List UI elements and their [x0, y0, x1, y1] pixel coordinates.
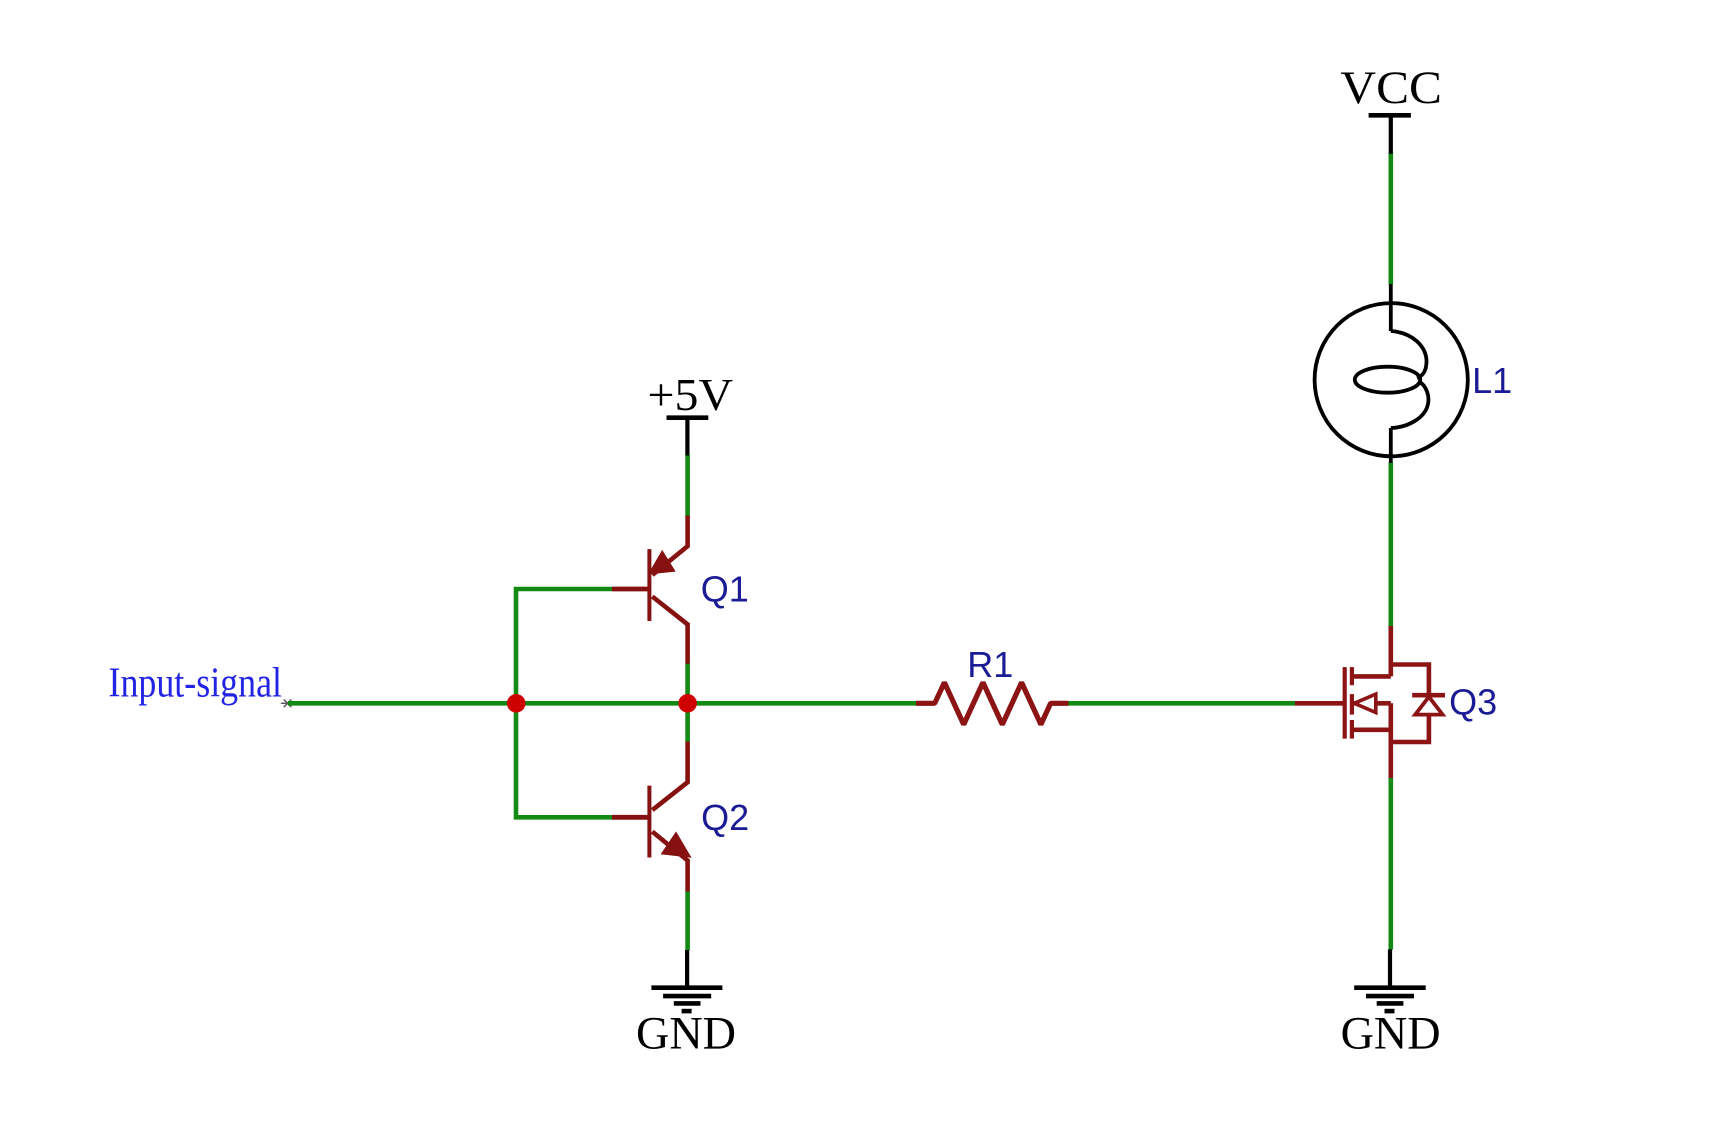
- wire Q1 emitter (top, from +5V): [685, 455, 690, 516]
- power flag VCC: [1340, 63, 1442, 154]
- power flag +5V: [648, 369, 734, 455]
- Q1 emitter lead: [652, 516, 687, 576]
- Q3 gate lead: [1295, 701, 1345, 706]
- Q3 body diode branch bottom: [1391, 715, 1429, 742]
- GND left bar 3: [674, 1001, 701, 1006]
- Q3 drain connection: [1352, 626, 1391, 676]
- Q2 base lead: [612, 815, 649, 820]
- svg-text:Q3: Q3: [1449, 682, 1497, 723]
- transistor Q2 (NPN): [612, 742, 749, 892]
- Q3 channel segment middle: [1350, 694, 1354, 715]
- wire base-bus down to Q2 base: [516, 701, 613, 817]
- svg-text:Q1: Q1: [701, 568, 749, 609]
- Q2 base bar: [647, 786, 651, 858]
- svg-text:Q2: Q2: [701, 797, 749, 838]
- GND left lead: [685, 950, 689, 988]
- svg-text:+5V: +5V: [648, 369, 734, 420]
- wire Q1 collector to output node: [685, 664, 690, 706]
- Q2 emitter arrow: [663, 834, 690, 857]
- wire Q2 emitter to GND: [685, 891, 690, 950]
- GND right bar 4: [1385, 1009, 1395, 1014]
- GND left bar 4: [682, 1009, 692, 1014]
- Q3 body diode triangle: [1415, 697, 1442, 715]
- resistor R1: [916, 644, 1069, 725]
- Q3 channel segment bottom: [1350, 720, 1354, 739]
- Q1 emitter arrow: [650, 552, 673, 573]
- L1 bottom lead: [1389, 428, 1393, 463]
- L1 bulb circle: [1315, 303, 1468, 456]
- svg-text:GND: GND: [636, 1008, 736, 1059]
- Q3 channel segment top: [1350, 667, 1354, 685]
- svg-text:R1: R1: [967, 644, 1013, 685]
- Q1 base lead: [612, 587, 649, 592]
- wire stub marker (unconnected origin): [282, 700, 294, 707]
- wire Q3 source to GND: [1389, 778, 1394, 950]
- L1 filament loop: [1355, 367, 1420, 393]
- svg-text:L1: L1: [1472, 360, 1512, 401]
- svg-text:GND: GND: [1341, 1009, 1441, 1060]
- L1 filament lower arc: [1391, 382, 1429, 429]
- Q3 source arrow (open): [1354, 694, 1376, 712]
- wire VCC to lamp: [1389, 153, 1394, 284]
- GND right bar 2: [1366, 994, 1414, 999]
- transistor Q3 (NMOS with body diode): [1295, 626, 1497, 778]
- Q3 body diode cathode bar: [1412, 693, 1445, 698]
- ground GND right: [1341, 949, 1441, 1059]
- junction node output: [678, 694, 697, 713]
- wire output node to R1: [688, 701, 916, 706]
- Q2 collector lead: [652, 742, 687, 811]
- GND right bar 1: [1354, 985, 1426, 990]
- L1 filament upper arc: [1391, 331, 1427, 378]
- Q3 body diode branch top: [1391, 665, 1429, 696]
- lamp L1: [1315, 284, 1513, 463]
- wire input horizontal: [288, 701, 516, 706]
- GND right bar 3: [1377, 1001, 1404, 1006]
- svg-text:Input-signal: Input-signal: [109, 661, 283, 707]
- svg-text:VCC: VCC: [1340, 63, 1442, 114]
- GND right lead: [1388, 949, 1392, 987]
- R1 body zigzag: [916, 683, 1069, 725]
- wire base-bus up to Q1 base: [516, 589, 613, 705]
- Q3 source connection middle: [1352, 701, 1391, 706]
- Q3 source connection bottom: [1352, 727, 1391, 732]
- transistor Q1 (PNP): [612, 516, 749, 664]
- wire R1 to Q3 gate: [1069, 701, 1296, 706]
- Q3 gate bar: [1343, 667, 1347, 739]
- wire Q2 collector from output node: [685, 701, 690, 742]
- Q1 base bar: [647, 549, 651, 621]
- ground GND left: [636, 950, 736, 1059]
- GND left bar 2: [663, 994, 711, 999]
- L1 top lead: [1389, 284, 1393, 331]
- Q2 emitter lead: [652, 832, 687, 892]
- Q3 source vertical: [1389, 703, 1394, 778]
- wire output bus between junctions: [516, 701, 688, 706]
- wire lamp to Q3 drain: [1389, 463, 1394, 627]
- Q1 collector lead: [652, 597, 687, 664]
- junction node base bus: [507, 694, 526, 713]
- GND left bar 1: [651, 985, 722, 990]
